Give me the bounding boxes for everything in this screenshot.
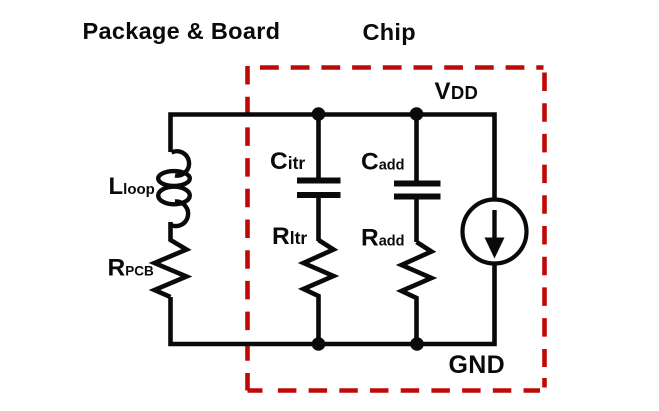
chip boundary (red dashed box) [248, 66, 545, 391]
wire: top rail to Citr top plate [316, 114, 321, 178]
node dot bottom rail / Rltr [312, 337, 326, 351]
svg-text:Citr: Citr [270, 148, 305, 175]
svg-text:Package & Board: Package & Board [83, 18, 281, 44]
svg-text:VDD: VDD [435, 78, 479, 105]
current source arrow [492, 210, 496, 240]
current source (circle) [463, 200, 527, 264]
wire: top rail to Cadd top plate [414, 114, 419, 181]
capacitor Citr [297, 178, 341, 184]
wire: top rail VDD (x 170->494) and corners down [171, 115, 495, 200]
svg-text:Cadd: Cadd [361, 149, 404, 176]
wire: bottom rail GND (x 170->494) and corners up [171, 264, 495, 345]
resistor Rltr (with wire to bottom rail) [304, 240, 334, 344]
resistor RPCB [155, 222, 187, 297]
node dot bottom rail / Radd [410, 337, 424, 351]
svg-text:Chip: Chip [363, 19, 416, 45]
capacitor Cadd [394, 181, 441, 187]
svg-text:Radd: Radd [361, 225, 404, 252]
wire: Cadd bottom plate to Radd [414, 200, 419, 243]
svg-text:Lloop: Lloop [109, 173, 155, 200]
node dot top rail / Citr [312, 107, 326, 121]
inductor Lloop (coil) [158, 151, 190, 226]
wire: Citr bottom plate to Rltr [316, 198, 321, 241]
svg-text:RPCB: RPCB [108, 255, 154, 282]
node dot top rail / Cadd [410, 107, 424, 121]
svg-text:Rltr: Rltr [272, 223, 307, 250]
svg-text:GND: GND [449, 351, 505, 379]
resistor Radd (with wire to bottom rail) [402, 242, 432, 344]
